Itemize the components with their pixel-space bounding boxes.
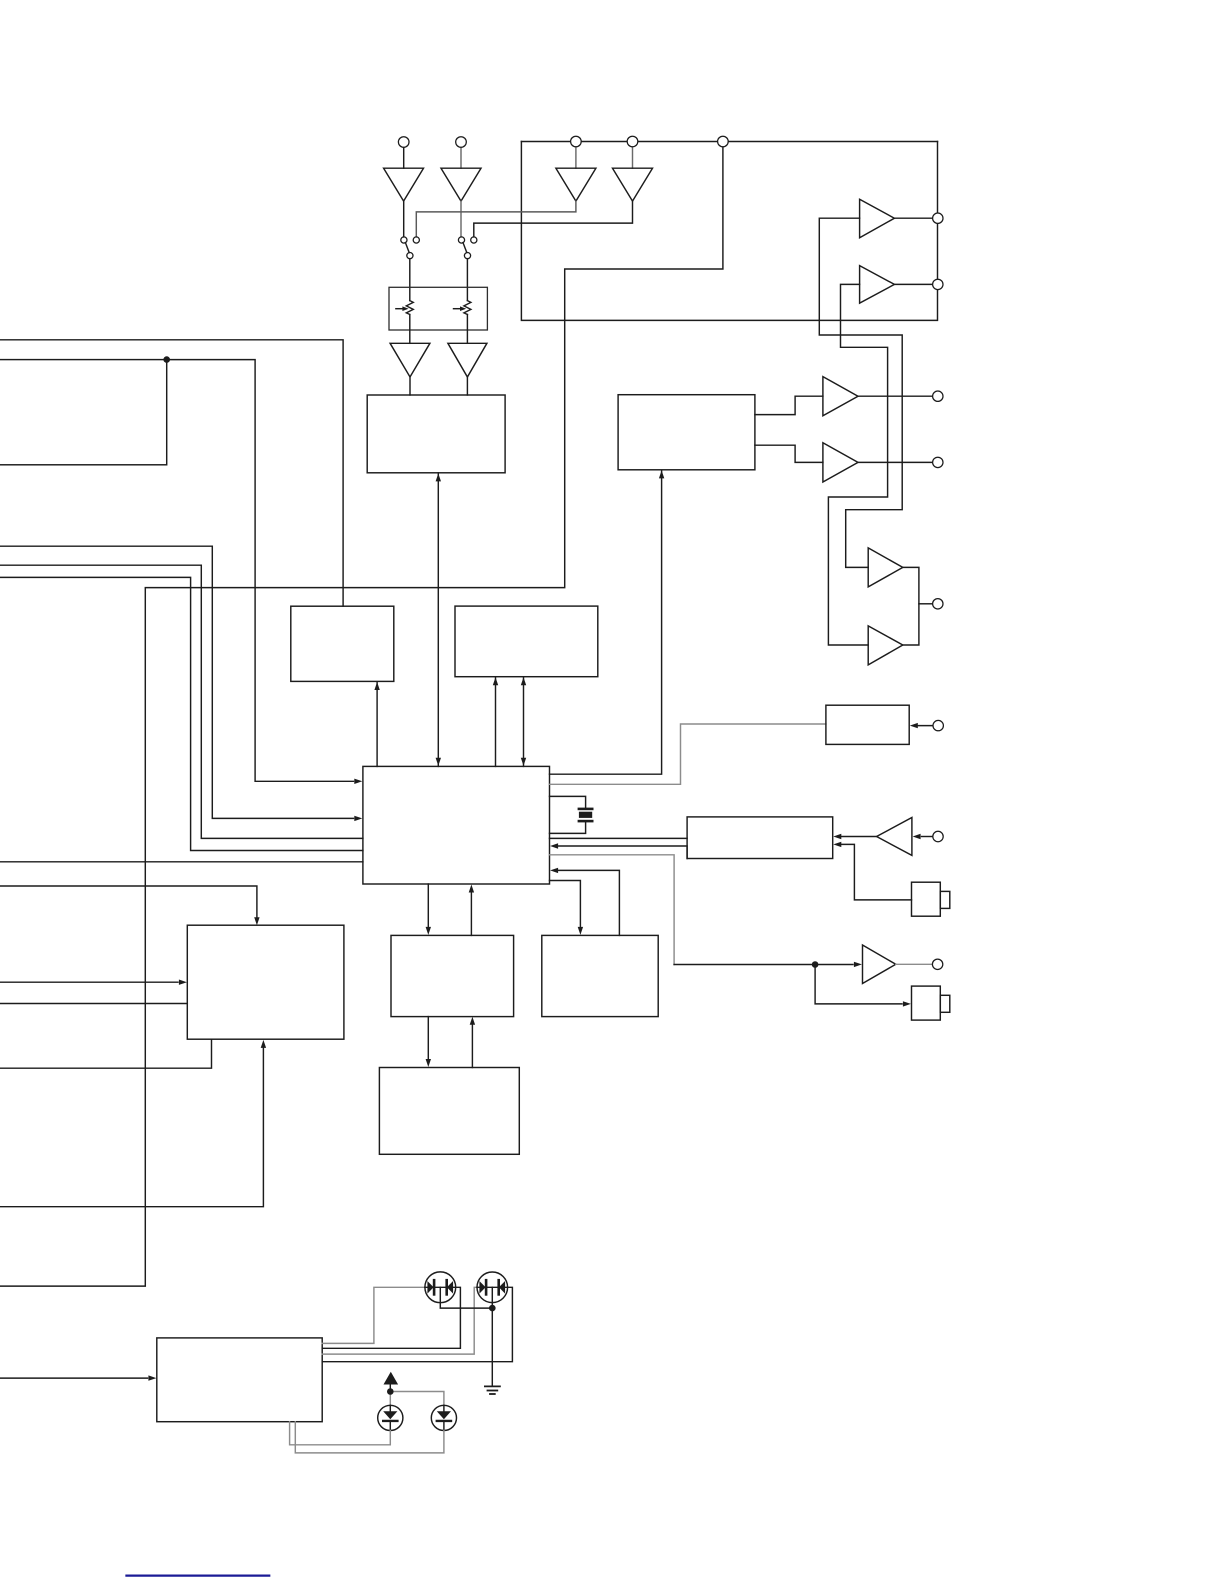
buffer A8 (right) [823, 443, 858, 482]
buffer A5 (down) [390, 343, 430, 377]
wire L4 page-left to U7 [0, 565, 363, 838]
wire A9 input net from A11 column [819, 218, 902, 567]
node junction dot [489, 1305, 496, 1312]
buffer A3 (inverting, down) [556, 168, 596, 201]
wire U7/U5 bidirectional [523, 677, 525, 766]
volume block box (VR1/VR2 enclosure) [389, 287, 487, 330]
IC U7 (main system control micro) [363, 766, 550, 884]
pin C3 [571, 136, 582, 147]
wire D1 return to U13 (grey) [290, 1422, 391, 1445]
wire A7 to pin C8 [858, 395, 933, 397]
IC U13 (AC power block) [157, 1338, 322, 1422]
crystal X1 loop wires [550, 796, 586, 807]
wire A11/A12 merge to pin C10 [903, 567, 919, 645]
wire feedback loop left/bottom/right [521, 142, 937, 321]
buffer A7 (right) [823, 377, 858, 416]
wire U13 to PC1 right [322, 1287, 460, 1348]
crystal X1 [579, 808, 592, 811]
buffer A10 (right, headphone) [860, 266, 895, 304]
node junction dot [387, 1388, 394, 1395]
buffer A14 (right) [863, 945, 896, 984]
switch SW1 [401, 237, 407, 243]
diode D2 (LED) [431, 1405, 456, 1430]
IC U11 (fluorescent display) [379, 1068, 519, 1155]
wire VR1 to buffer A5 [409, 315, 411, 344]
switch SW2 [458, 237, 464, 243]
wire U9 to U7 (arrow up) [470, 889, 472, 935]
wire pin C3 stem [575, 147, 577, 168]
wire L10 page-left up to U12 bottom [0, 1039, 212, 1068]
node junction dot [812, 961, 819, 968]
wire D2 return to U13 (grey) [295, 1422, 444, 1453]
wire U9 to U11 (arrow down) [427, 1017, 429, 1063]
pin C5 [718, 136, 729, 147]
wire U7 to U10 top (arrow down) [550, 881, 581, 931]
wire L3 page-left to U7 (arrow) [0, 546, 354, 818]
pin C2 [456, 137, 467, 148]
wire L1 page-left into U4 top [0, 340, 343, 606]
pin C1 [398, 137, 409, 148]
wire L8 page-left into U12 (arrow right) [0, 981, 178, 983]
IC U6 (remote sensor block) [826, 705, 909, 744]
wire PC2 tap down to ground [491, 1287, 493, 1385]
wire A6 apex into U2 top [466, 377, 468, 395]
wire U3 out to buffer A7 [755, 396, 823, 414]
pin C10 [933, 599, 943, 609]
wire SW1 pole down to VR1 [409, 259, 411, 301]
wire A8 to pin C9 [858, 461, 933, 463]
wire J1 to U8 (arrow left) [842, 844, 912, 900]
triac PC1 [425, 1272, 456, 1303]
buffer A13 (left pointing) [877, 818, 912, 856]
pin C4 [627, 136, 638, 147]
jack J2 [912, 986, 941, 1020]
resistor VR2 (potentiometer) [464, 301, 471, 315]
pin C13 [932, 959, 942, 969]
diode D1 (LED) [378, 1405, 403, 1430]
IC U8 (EEPROM block) [687, 817, 833, 859]
wire U13 to PC2 right [322, 1287, 512, 1361]
wire L11 page-left to U12 bottom (arrow up) [0, 1045, 263, 1207]
wire U2/U7 bidirectional bus [437, 473, 439, 767]
buffer A1 (inverting, down) [384, 168, 424, 201]
wire L7 page-left into U12 top (arrow down) [0, 886, 257, 921]
IC U9 (display driver) [391, 935, 514, 1016]
wire VCC to diode D1 (grey) [389, 1392, 391, 1406]
wire U8 corner to U7 (arrow left) [559, 846, 688, 859]
pin C7 [933, 279, 943, 289]
wire L6 page-left to U7 [0, 861, 363, 863]
wire A9 to pin C6 [894, 217, 932, 219]
power VCC arrow [384, 1372, 399, 1385]
wire A10 input net from A12 column [828, 284, 887, 645]
wire A13 out to U8 (arrow left) [842, 836, 877, 838]
IC U5 (small block) [455, 606, 598, 677]
wire pin C4 stem [632, 147, 634, 168]
wire PC1 gate tap to ground node [440, 1287, 489, 1308]
wire dot to A14 (arrow right) [818, 964, 853, 966]
resistor VR1 (potentiometer) [406, 301, 413, 315]
wire pin C12 to A13 (arrow left) [922, 836, 933, 838]
pin C12 [933, 831, 943, 841]
wire A10 to pin C7 [894, 283, 932, 285]
wire pin C1 stem [403, 147, 405, 168]
wire U13 to PC2 left (grey) [322, 1287, 477, 1354]
IC U10 (key matrix) [542, 935, 658, 1016]
wire U7 grey run to headphone branch [550, 855, 675, 965]
wire branch to A14 [674, 964, 812, 966]
buffer A6 (down) [448, 343, 487, 377]
wire A4 apex to switch SW2 contact b [474, 201, 633, 237]
jack J1 [912, 882, 941, 916]
IC U4 (small block) [291, 606, 394, 681]
buffer A11 (right) [868, 548, 903, 587]
IC U12 (power supply block) [187, 925, 344, 1039]
pin C11 [933, 720, 943, 730]
ground [485, 1385, 500, 1387]
IC U3 (right DAC block) [618, 395, 755, 470]
wire L5 page-left to U7 [0, 577, 363, 850]
wire U10 to U7 (arrow left) [559, 870, 620, 935]
wire A2 apex to switch SW2 contact a [460, 201, 462, 237]
IC U2 (DAC block) [367, 395, 505, 473]
wire VR2 to buffer A6 [466, 315, 468, 344]
pin C9 [933, 457, 943, 467]
pin C8 [933, 391, 943, 401]
wire pin C2 stem [460, 147, 462, 168]
wire A14 to pin C13 (grey) [896, 963, 933, 965]
wire U7 to U3 bottom (arrow up) [550, 470, 662, 774]
buffer A9 (right, headphone) [860, 199, 895, 238]
wire A5 apex into U2 top [409, 377, 411, 395]
reference line (blue) [127, 1574, 270, 1576]
wire U1 dot to U7 left (arrow) [167, 360, 354, 782]
wire top rail [521, 141, 937, 143]
buffer A4 (inverting, down) [613, 168, 653, 201]
wire U7 to U9 top (arrow down) [427, 884, 429, 930]
wire U13 to PC1 left (grey) [322, 1287, 425, 1343]
wire SW2 pole down to VR2 [466, 259, 468, 301]
wire L13 page-left into U13 (arrow right) [0, 1377, 148, 1379]
wire U7 to U5 bottom left (arrow up) [495, 677, 497, 766]
triac PC2 [477, 1272, 508, 1303]
wire U3 out to buffer A8 [755, 445, 823, 462]
wire dot to jack J2 (arrow right) [815, 965, 902, 1004]
wire U7 to U6 input (grey) [550, 724, 826, 784]
node junction dot on U1 corner [163, 356, 170, 363]
buffer A2 (inverting, down) [441, 168, 481, 201]
wire pin C11 into U6 (arrow left) [914, 725, 933, 727]
wire U7 to U4 bottom (arrow up) [376, 682, 378, 766]
wire U7 to U8 left [550, 837, 688, 839]
wire L9 page-left into U12 [0, 1003, 187, 1005]
pin C6 [933, 213, 943, 223]
node C5 net wire (pin 5 down-left long run to page edge) [0, 147, 723, 1286]
wire A1 apex to switch SW1 contact a [403, 201, 405, 237]
wire A3 apex to switch SW1 contact b [416, 201, 576, 237]
wire U11 to U9 (arrow up) [471, 1021, 473, 1067]
wire VCC to diode D2 (grey) [390, 1392, 444, 1406]
IC U1 (top-left tuner block) [0, 360, 167, 465]
buffer A12 (right) [868, 626, 903, 665]
